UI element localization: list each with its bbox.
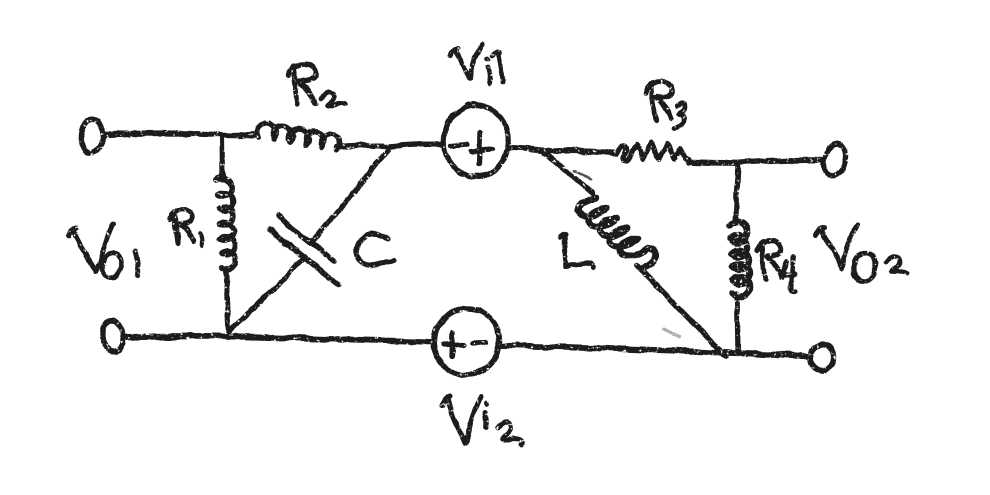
wire R2 to Vi1, node for capacitor bbox=[337, 144, 444, 148]
inductor L coil bbox=[578, 198, 656, 267]
Vi2 minus sign bbox=[473, 339, 487, 345]
terminal node bottom-right (V02 -) bbox=[808, 343, 835, 374]
capacitor C diagonal wire upper bbox=[311, 146, 391, 243]
wire Vi1 to R3 (junction to L) bbox=[509, 148, 617, 153]
label R3 bbox=[646, 82, 685, 128]
label R2 bbox=[288, 64, 345, 106]
label R1 bbox=[170, 210, 202, 245]
wire top-left rail bbox=[103, 133, 257, 135]
capacitor C plate upper bbox=[277, 216, 334, 261]
stray tick near L coil bbox=[575, 171, 591, 180]
label V01 bbox=[69, 224, 138, 280]
label V02 bbox=[816, 224, 907, 283]
capacitor C plate lower bbox=[270, 230, 338, 284]
terminal node top-right (V02 +) bbox=[821, 141, 849, 179]
label R4 bbox=[757, 241, 795, 291]
resistor R3 bbox=[617, 142, 689, 161]
terminal node bottom-left (V01 -) bbox=[101, 319, 125, 353]
capacitor C diagonal wire lower bbox=[231, 260, 303, 330]
wire bottom-left rail bbox=[124, 336, 435, 342]
label Vi2 bbox=[442, 397, 523, 445]
wire R3 to top-right terminal bbox=[689, 160, 824, 163]
resistor R1 (vertical) bbox=[219, 136, 225, 179]
resistor R4 (vertical) bbox=[735, 164, 738, 224]
Vi1 plus sign bbox=[471, 149, 493, 151]
wire Vi2 to bottom-right terminal bbox=[500, 345, 810, 356]
source Vi1 bbox=[444, 105, 508, 177]
source Vi2 bbox=[435, 309, 500, 375]
inductor L diagonal lower bbox=[638, 266, 726, 357]
resistor R2 bbox=[257, 124, 339, 150]
Vi2 plus sign bbox=[444, 342, 464, 348]
label Vi1 bbox=[451, 44, 503, 84]
stray dash below L diagonal bbox=[663, 329, 681, 338]
inductor L diagonal upper bbox=[543, 151, 592, 193]
terminal node top-left (V01 +) bbox=[79, 117, 105, 155]
label C bbox=[357, 235, 394, 265]
Vi1 minus sign bbox=[452, 144, 467, 146]
label L bbox=[560, 235, 593, 267]
